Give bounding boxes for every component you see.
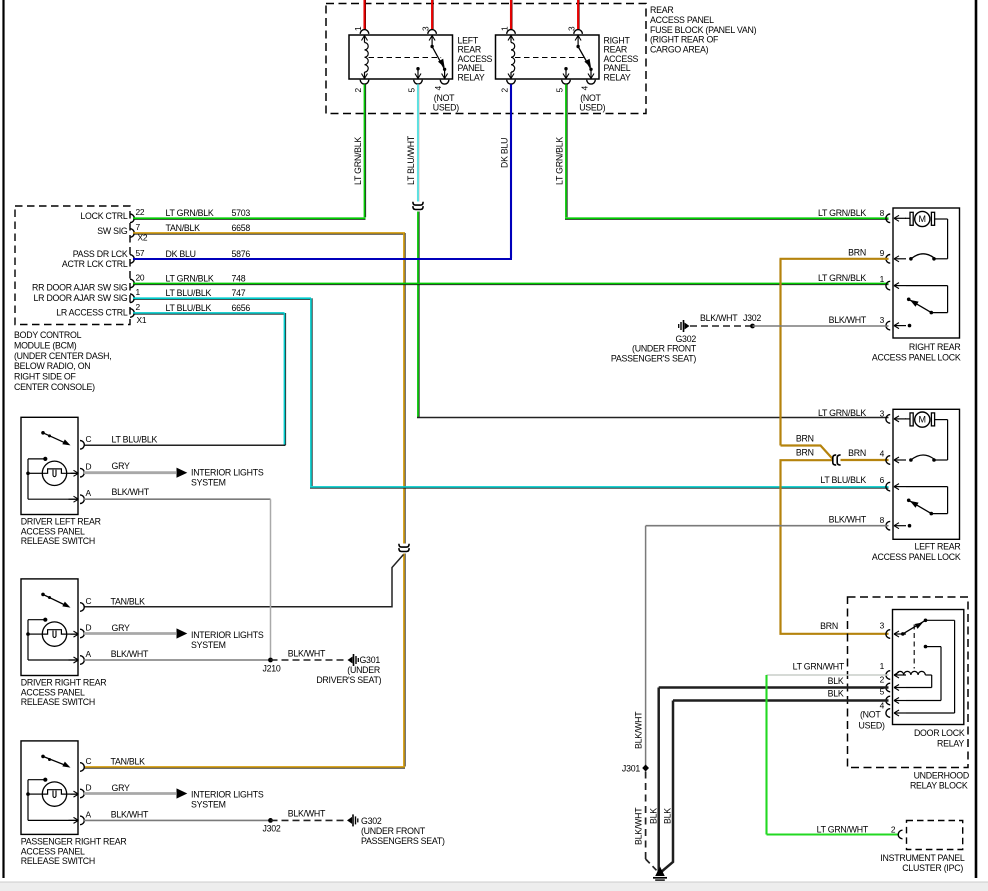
wire LT GRN/WHT horizontal to IPC	[767, 833, 900, 835]
relay pin 1 terminal	[507, 30, 516, 34]
svg-text:REAR: REAR	[650, 5, 673, 15]
svg-text:BLK: BLK	[828, 676, 844, 686]
switch blade	[41, 593, 45, 597]
relay internal dashed actuate line	[369, 57, 442, 59]
lock motor leads	[905, 418, 910, 420]
relay internal dashed actuate line	[515, 57, 587, 59]
svg-text:CENTER CONSOLE): CENTER CONSOLE)	[14, 382, 95, 392]
svg-text:ACCESS PANEL: ACCESS PANEL	[650, 15, 714, 25]
svg-text:PASS DR LCK: PASS DR LCK	[73, 249, 128, 259]
svg-text:J302: J302	[263, 824, 281, 834]
svg-text:7: 7	[136, 222, 141, 232]
svg-text:BLK/WHT: BLK/WHT	[634, 807, 644, 845]
wire LT BLU/BLK 6656 BCM pin 2 horizontal	[133, 312, 285, 314]
wire GRY switch2 to interior lights arrow	[84, 632, 176, 635]
svg-text:GRY: GRY	[112, 461, 131, 471]
switch lamp leads and internal wiring	[28, 472, 43, 474]
svg-text:USED): USED)	[579, 103, 605, 113]
relay pin 4 terminal	[587, 80, 596, 84]
svg-text:LT BLU/WHT: LT BLU/WHT	[406, 135, 416, 185]
svg-text:RELAY BLOCK: RELAY BLOCK	[910, 781, 968, 791]
door lock relay pin 3 terminal	[886, 630, 890, 639]
svg-text:BLK/WHT: BLK/WHT	[112, 487, 150, 497]
BCM pin 2 terminal	[130, 309, 134, 318]
svg-text:J302: J302	[743, 313, 761, 323]
svg-text:3: 3	[567, 26, 577, 31]
fuse block dashed box (rear access panel fuse block)	[326, 4, 646, 114]
svg-text:BLK/WHT: BLK/WHT	[634, 711, 644, 749]
lock motor-reverse switch contacts	[909, 257, 913, 261]
svg-text:(UNDER FRONT: (UNDER FRONT	[361, 826, 426, 836]
relay pin 5 stub contact	[564, 67, 567, 70]
switch terminals	[80, 763, 84, 772]
svg-text:BRN: BRN	[848, 448, 866, 458]
lock ajar switch rail	[906, 285, 948, 287]
svg-text:DRIVER RIGHT REAR: DRIVER RIGHT REAR	[21, 678, 107, 688]
door lock relay pin 2 terminal	[886, 683, 890, 692]
svg-text:LT GRN/BLK: LT GRN/BLK	[166, 208, 214, 218]
svg-text:BELOW RADIO, ON: BELOW RADIO, ON	[14, 361, 90, 371]
relay switch blade to pin 4	[578, 47, 591, 70]
svg-text:6656: 6656	[232, 303, 251, 313]
relay pin 3 red feed wire	[431, 0, 433, 29]
switch blade	[41, 755, 45, 759]
svg-text:D: D	[86, 623, 92, 633]
svg-text:BRN: BRN	[796, 448, 814, 458]
svg-text:747: 747	[232, 288, 246, 298]
svg-text:INTERIOR LIGHTS: INTERIOR LIGHTS	[191, 467, 264, 477]
svg-text:(NOT: (NOT	[580, 93, 601, 103]
lock box	[893, 409, 960, 539]
svg-text:8: 8	[880, 515, 885, 525]
svg-text:RELAY: RELAY	[458, 72, 485, 82]
svg-text:DRIVER LEFT REAR: DRIVER LEFT REAR	[21, 517, 101, 527]
svg-text:2: 2	[880, 674, 885, 684]
relay switch contact from pin 3	[577, 36, 579, 46]
svg-text:LT GRN/BLK: LT GRN/BLK	[818, 208, 866, 218]
svg-text:PASSENGER'S SEAT): PASSENGER'S SEAT)	[611, 353, 696, 363]
ground G302 symbol lower	[347, 817, 352, 824]
lock ground contact stub	[908, 524, 912, 528]
wire BLK/WHT dashed to G301	[271, 659, 348, 661]
svg-text:D: D	[86, 462, 92, 472]
switch terminals	[80, 603, 84, 612]
BCM pin 1 terminal	[130, 294, 134, 303]
svg-text:BRN: BRN	[820, 621, 838, 631]
switch lamp	[42, 622, 66, 646]
svg-text:ACCESS PANEL: ACCESS PANEL	[21, 846, 85, 856]
svg-text:1: 1	[136, 287, 141, 297]
lock ajar switch blade	[930, 311, 934, 315]
wire LT BLU/BLK 747 BCM pin 1 horizontal	[133, 297, 311, 299]
svg-text:DK BLU: DK BLU	[500, 138, 510, 168]
svg-text:BLK/WHT: BLK/WHT	[700, 313, 738, 323]
relay pin 5 terminal	[414, 80, 423, 84]
wire LT GRN/BLK 748 BCM pin 20 to right rear lock pin 1	[133, 283, 889, 285]
relay pin 1 red feed wire	[510, 0, 512, 29]
bottom scrollbar strip	[0, 882, 988, 891]
svg-text:M: M	[919, 415, 927, 425]
svg-text:57: 57	[136, 248, 145, 258]
inline connector on TAN/BLK wire	[399, 544, 409, 547]
lock terminals	[886, 214, 890, 223]
svg-text:MODULE (BCM): MODULE (BCM)	[14, 340, 77, 350]
wire BRN vertical upper	[779, 259, 781, 446]
svg-text:LT GRN/BLK: LT GRN/BLK	[353, 137, 363, 185]
svg-text:5: 5	[555, 88, 565, 93]
switch lamp	[42, 782, 66, 806]
wire BLK/WHT vertical to J301	[645, 526, 647, 768]
svg-text:LT GRN/BLK: LT GRN/BLK	[166, 273, 214, 283]
BCM pin 22 terminal	[130, 214, 134, 223]
svg-text:RELEASE SWITCH: RELEASE SWITCH	[21, 856, 95, 866]
svg-text:(UNDER FRONT: (UNDER FRONT	[632, 344, 697, 354]
svg-text:TAN/BLK: TAN/BLK	[166, 223, 201, 233]
svg-text:4: 4	[433, 86, 443, 91]
wire LT GRN/BLK from left relay pin 2 down to BCM LOCK CTRL	[364, 84, 366, 217]
svg-text:C: C	[86, 434, 92, 444]
switch terminals	[80, 441, 84, 450]
wire BLK/WHT switch2 pin A to J210	[84, 659, 271, 661]
wire LT BLU/WHT from left relay pin 5	[417, 84, 419, 201]
lock motor leads	[905, 217, 910, 219]
svg-text:GRY: GRY	[112, 623, 131, 633]
lock internal rail motor to switch	[947, 420, 949, 460]
lock box	[893, 208, 960, 338]
ground G301 symbol	[348, 657, 353, 664]
underhood relay block dashed box	[848, 597, 969, 768]
relay pin 4 terminal	[440, 80, 449, 84]
door lock relay coil	[894, 674, 897, 676]
svg-text:LT GRN/BLK: LT GRN/BLK	[818, 408, 866, 418]
svg-text:RIGHT REAR: RIGHT REAR	[909, 342, 961, 352]
svg-text:BLK/WHT: BLK/WHT	[111, 809, 149, 819]
wire BRN from door lock relay vertical	[781, 460, 889, 634]
door lock relay pin 4 terminal	[886, 709, 890, 718]
relay coil	[364, 36, 366, 43]
wire BLK/WHT switch1 pin A	[84, 498, 271, 500]
svg-text:C: C	[86, 756, 92, 766]
wire LT BLU/BLK 6656 vertical	[284, 313, 286, 445]
relay box RIGHT rear access panel relay	[496, 35, 600, 79]
page right border	[975, 0, 978, 878]
svg-text:(RIGHT REAR OF: (RIGHT REAR OF	[650, 35, 719, 45]
lock terminals	[886, 415, 890, 424]
svg-text:BRN: BRN	[848, 248, 866, 258]
junction J210	[268, 658, 273, 663]
ground symbol bottom (body ground)	[655, 867, 665, 877]
wire TAN/BLK 6658 vertical	[403, 233, 405, 544]
svg-text:USED): USED)	[433, 103, 459, 113]
junction J301	[642, 765, 649, 772]
svg-text:M: M	[919, 214, 927, 224]
relay pin 5 stub contact	[416, 67, 419, 70]
svg-text:1: 1	[880, 274, 885, 284]
svg-text:2: 2	[500, 88, 510, 93]
svg-text:BLK: BLK	[828, 689, 844, 699]
svg-text:1: 1	[880, 661, 885, 671]
svg-text:(NOT: (NOT	[860, 710, 881, 720]
svg-text:TAN/BLK: TAN/BLK	[111, 597, 146, 607]
svg-text:J210: J210	[263, 663, 281, 673]
wire LT GRN/BLK from right relay pin 5 down to right lock pin 8	[565, 84, 567, 217]
wire TAN/BLK continues down to passenger switch	[403, 554, 405, 767]
door lock relay pin 5 terminal	[886, 696, 890, 705]
wire LT BLU/BLK 747 horizontal to left rear lock pin 6	[310, 486, 889, 488]
wire BLK pin 5 vertical to ground	[661, 701, 674, 873]
wire BLK pin 2 vertical to ground	[657, 688, 660, 873]
svg-text:LT GRN/WHT: LT GRN/WHT	[817, 824, 869, 834]
svg-text:BLK/WHT: BLK/WHT	[111, 649, 149, 659]
svg-text:CARGO AREA): CARGO AREA)	[650, 45, 709, 55]
svg-text:2: 2	[136, 302, 141, 312]
lock motor-reverse switch contacts	[909, 458, 913, 462]
svg-text:SYSTEM: SYSTEM	[191, 800, 226, 810]
svg-text:ACCESS PANEL: ACCESS PANEL	[21, 687, 85, 697]
BCM pin 20 terminal	[130, 279, 134, 288]
lock ajar switch blade	[930, 512, 934, 516]
svg-text:6658: 6658	[232, 223, 251, 233]
svg-text:5876: 5876	[232, 249, 251, 259]
svg-text:2: 2	[353, 88, 363, 93]
svg-text:RIGHT SIDE OF: RIGHT SIDE OF	[14, 372, 76, 382]
wire LT GRN/BLK horizontal to right rear lock pin 8	[565, 217, 889, 219]
BCM pin 57 terminal	[130, 255, 134, 264]
wire (dark) horizontal to driver left rear switch pin C	[84, 444, 286, 446]
svg-text:PASSENGERS SEAT): PASSENGERS SEAT)	[361, 836, 445, 846]
svg-text:5703: 5703	[232, 208, 251, 218]
wire LT GRN/BLK 5703 BCM pin 22 horizontal	[133, 217, 366, 219]
svg-text:6: 6	[880, 475, 885, 485]
svg-text:22: 22	[136, 207, 145, 217]
wire BRN connector to left lock pin 4	[841, 459, 889, 461]
switch lamp leads and internal wiring	[28, 633, 43, 635]
switch lamp	[42, 461, 66, 485]
lock ajar switch rail	[906, 486, 948, 488]
svg-text:1: 1	[353, 26, 363, 31]
wire GRY switch1 to interior lights arrow	[84, 471, 176, 474]
svg-text:BODY CONTROL: BODY CONTROL	[14, 330, 82, 340]
relay pin 1 terminal	[360, 30, 369, 34]
svg-text:SYSTEM: SYSTEM	[191, 478, 226, 488]
relay pin 3 terminal	[428, 30, 437, 34]
wire TAN/BLK 6658 BCM pin 7 horizontal	[133, 232, 405, 234]
svg-text:PASSENGER RIGHT REAR: PASSENGER RIGHT REAR	[21, 837, 127, 847]
svg-text:8: 8	[880, 208, 885, 218]
wire BLK/WHT switch3 pin A to J302	[84, 819, 271, 821]
svg-text:5: 5	[407, 88, 417, 93]
svg-text:4: 4	[580, 86, 590, 91]
svg-text:(UNDER: (UNDER	[347, 665, 380, 675]
svg-text:LR DOOR AJAR SW SIG: LR DOOR AJAR SW SIG	[34, 293, 128, 303]
wire DK BLU 5876 BCM pin 57 horizontal	[133, 258, 512, 260]
wire BLK/WHT left lock pin 8 horizontal	[646, 525, 889, 527]
wire LT GRN/WHT pale horizontal to relay pin 1	[767, 674, 889, 676]
relay switch contact from pin 3	[431, 36, 433, 46]
svg-text:G302: G302	[361, 816, 382, 826]
svg-text:INTERIOR LIGHTS: INTERIOR LIGHTS	[191, 789, 264, 799]
wire GRY switch3 to interior lights arrow	[84, 792, 176, 795]
svg-text:4: 4	[880, 448, 885, 458]
inline connector on BRN wires	[833, 455, 836, 465]
ground G302 symbol near right lock	[685, 323, 690, 330]
lock motor M	[915, 412, 930, 427]
svg-text:BLK: BLK	[649, 808, 659, 824]
wire (dark) branch to driver right rear switch pin C	[84, 555, 404, 607]
wire BLK/WHT dashed to G302	[690, 325, 753, 327]
wire BLK/WHT dashed to ground	[645, 772, 647, 860]
wire DK BLU from right relay pin 2 down to BCM	[510, 84, 512, 258]
svg-text:LR ACCESS CTRL: LR ACCESS CTRL	[56, 307, 128, 317]
svg-text:TAN/BLK: TAN/BLK	[111, 756, 146, 766]
svg-text:A: A	[86, 488, 92, 498]
svg-text:DRIVER'S SEAT): DRIVER'S SEAT)	[316, 675, 381, 685]
wire LT BLU/BLK 747 vertical	[310, 298, 312, 486]
wire LT GRN/WHT vertical green	[765, 675, 767, 835]
svg-text:3: 3	[880, 315, 885, 325]
svg-text:LEFT REAR: LEFT REAR	[915, 542, 961, 552]
svg-text:A: A	[86, 649, 92, 659]
svg-text:RELEASE SWITCH: RELEASE SWITCH	[21, 697, 95, 707]
svg-text:20: 20	[136, 272, 145, 282]
relay pin 2 terminal	[507, 80, 516, 84]
svg-text:GRY: GRY	[112, 783, 131, 793]
door lock relay dashed actuate line	[913, 625, 915, 669]
svg-text:X1: X1	[137, 315, 147, 325]
svg-text:CLUSTER (IPC): CLUSTER (IPC)	[902, 863, 963, 873]
wire LT GRN/BLK from connector down to left lock pin 3	[417, 212, 419, 418]
svg-text:LT BLU/BLK: LT BLU/BLK	[112, 434, 158, 444]
svg-text:1: 1	[500, 26, 510, 31]
svg-text:(UNDER CENTER DASH,: (UNDER CENTER DASH,	[14, 351, 111, 361]
wire BLK/WHT vertical switch1 to J210	[270, 499, 272, 660]
svg-text:LT BLU/BLK: LT BLU/BLK	[166, 288, 212, 298]
wire BLK relay pin 2	[659, 686, 889, 689]
svg-text:C: C	[86, 596, 92, 606]
svg-text:LT GRN/BLK: LT GRN/BLK	[818, 273, 866, 283]
svg-text:LOCK CTRL: LOCK CTRL	[80, 211, 127, 221]
svg-text:BLK: BLK	[663, 808, 673, 824]
svg-text:INSTRUMENT PANEL: INSTRUMENT PANEL	[880, 853, 965, 863]
svg-text:ACCESS PANEL LOCK: ACCESS PANEL LOCK	[872, 353, 961, 363]
svg-text:DOOR LOCK: DOOR LOCK	[914, 728, 965, 738]
svg-text:ACCESS PANEL: ACCESS PANEL	[21, 526, 85, 536]
door lock relay switch	[901, 632, 905, 636]
lock ground contact stub	[908, 324, 912, 328]
relay pin 2 terminal	[360, 80, 369, 84]
svg-text:BLK/WHT: BLK/WHT	[829, 515, 867, 525]
svg-text:RR DOOR AJAR SW SIG: RR DOOR AJAR SW SIG	[32, 282, 128, 292]
svg-text:D: D	[86, 783, 92, 793]
lock internal rail motor to switch	[947, 219, 949, 259]
svg-text:2: 2	[891, 824, 896, 834]
svg-text:LT BLU/BLK: LT BLU/BLK	[820, 475, 866, 485]
svg-text:LT BLU/BLK: LT BLU/BLK	[166, 303, 212, 313]
inline connector on access panel wire	[413, 202, 423, 205]
svg-text:USED): USED)	[859, 721, 885, 731]
wire BLK relay pin 5	[673, 699, 889, 702]
svg-text:INTERIOR LIGHTS: INTERIOR LIGHTS	[191, 630, 264, 640]
svg-text:ACTR LCK CTRL: ACTR LCK CTRL	[62, 259, 128, 269]
module BCM dashed box	[15, 206, 130, 325]
junction J302 (right lock ground)	[750, 324, 755, 329]
wire (dark) horizontal run to left rear lock pin 3	[417, 417, 889, 419]
relay pin 3 red feed wire	[577, 0, 579, 29]
svg-text:3: 3	[880, 620, 885, 630]
svg-text:RELAY: RELAY	[604, 72, 631, 82]
page left border	[2, 0, 4, 878]
svg-text:SYSTEM: SYSTEM	[191, 640, 226, 650]
relay pin 1 red feed wire	[363, 0, 365, 29]
svg-text:DK BLU: DK BLU	[166, 249, 196, 259]
svg-text:UNDERHOOD: UNDERHOOD	[914, 771, 969, 781]
door lock relay second contact	[924, 645, 928, 649]
svg-text:J301: J301	[622, 763, 640, 773]
svg-text:BLK/WHT: BLK/WHT	[288, 649, 326, 659]
wire BRN right lock pin 9 horizontal	[780, 258, 889, 260]
svg-text:LT GRN/WHT: LT GRN/WHT	[793, 662, 845, 672]
svg-text:BLK/WHT: BLK/WHT	[288, 809, 326, 819]
wire BLK/WHT dashed to G302 lower	[271, 819, 348, 821]
wire BLK/WHT right lock pin 3	[753, 325, 889, 327]
door lock relay box	[893, 610, 964, 725]
svg-text:(NOT: (NOT	[434, 93, 455, 103]
lock motor M	[915, 211, 930, 226]
svg-text:G302: G302	[675, 334, 696, 344]
switch blade	[41, 431, 45, 435]
relay coil	[510, 36, 512, 43]
BCM pin 7 terminal	[130, 229, 134, 238]
svg-text:FUSE BLOCK (PANEL VAN): FUSE BLOCK (PANEL VAN)	[650, 25, 757, 35]
svg-text:G301: G301	[359, 655, 380, 665]
svg-text:3: 3	[421, 26, 431, 31]
switch box	[21, 741, 78, 835]
svg-text:748: 748	[232, 273, 246, 283]
svg-text:BRN: BRN	[796, 434, 814, 444]
svg-text:A: A	[86, 809, 92, 819]
svg-text:BLK/WHT: BLK/WHT	[829, 315, 867, 325]
svg-text:SW SIG: SW SIG	[97, 226, 128, 236]
wire BRN jog and diagonal to connector	[781, 446, 833, 459]
relay pin 3 terminal	[574, 30, 583, 34]
IPC dashed box	[907, 821, 963, 850]
relay switch blade to pin 4	[432, 47, 445, 70]
relay pin 5 terminal	[562, 80, 571, 84]
svg-text:3: 3	[880, 408, 885, 418]
wire TAN/BLK horizontal to passenger right rear switch pin C	[84, 766, 405, 768]
svg-text:ACCESS PANEL LOCK: ACCESS PANEL LOCK	[872, 552, 961, 562]
relay box LEFT rear access panel relay	[349, 35, 453, 79]
switch box	[21, 579, 78, 676]
svg-text:RELAY: RELAY	[937, 739, 964, 749]
svg-text:RELEASE SWITCH: RELEASE SWITCH	[21, 536, 95, 546]
door lock relay pin 1 terminal	[886, 671, 890, 680]
switch lamp leads and internal wiring	[28, 793, 43, 795]
svg-text:9: 9	[880, 248, 885, 258]
junction J302 (lower)	[268, 818, 273, 823]
IPC pin 2 terminal	[898, 830, 902, 839]
switch box	[21, 417, 78, 514]
svg-text:LT GRN/BLK: LT GRN/BLK	[555, 137, 565, 185]
